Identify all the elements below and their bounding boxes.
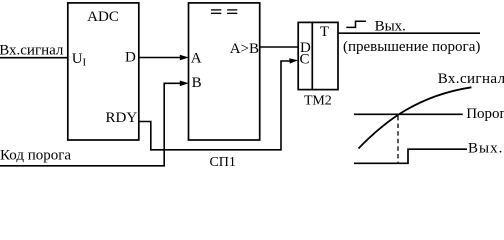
wire output from T xyxy=(338,32,480,34)
block ADC xyxy=(68,3,139,140)
svg-text:T: T xyxy=(320,24,329,40)
svg-text:Вых.: Вых. xyxy=(468,141,503,157)
graph threshold line xyxy=(354,113,463,115)
svg-text:Вых.: Вых. xyxy=(375,18,406,34)
label == (comparator symbol) xyxy=(211,10,237,13)
svg-text:Вх.сигнал: Вх.сигнал xyxy=(438,71,504,87)
svg-text:ADC: ADC xyxy=(87,9,119,25)
block flip-flop TM2 xyxy=(298,22,338,89)
graph output step waveform xyxy=(354,149,467,163)
wire D to A xyxy=(139,57,180,59)
symbol rising edge pulse xyxy=(346,21,366,27)
svg-text:A: A xyxy=(191,50,202,66)
svg-text:UI: UI xyxy=(72,51,87,69)
svg-text:Вх.сигнал: Вх.сигнал xyxy=(0,43,64,59)
svg-text:Порог: Порог xyxy=(466,106,504,122)
svg-text:RDY: RDY xyxy=(106,110,138,126)
svg-text:C: C xyxy=(300,52,310,68)
svg-text:D: D xyxy=(125,50,136,66)
svg-text:A>B: A>B xyxy=(230,41,259,57)
graph dashed crossing line xyxy=(397,116,399,164)
svg-text:B: B xyxy=(192,75,202,91)
svg-text:ТМ2: ТМ2 xyxy=(304,94,332,109)
svg-text:(превышение порога): (превышение порога) xyxy=(343,39,480,55)
svg-text:Код порога: Код порога xyxy=(0,148,71,164)
wire input signal to ADC xyxy=(0,57,68,59)
wire threshold code to B xyxy=(0,83,180,166)
wire RDY to C xyxy=(139,61,290,150)
block comparator SP1 xyxy=(189,3,260,140)
wire A>B to D of TM2 xyxy=(260,46,299,48)
svg-text:СП1: СП1 xyxy=(209,155,235,170)
graph curve input signal xyxy=(359,87,472,148)
